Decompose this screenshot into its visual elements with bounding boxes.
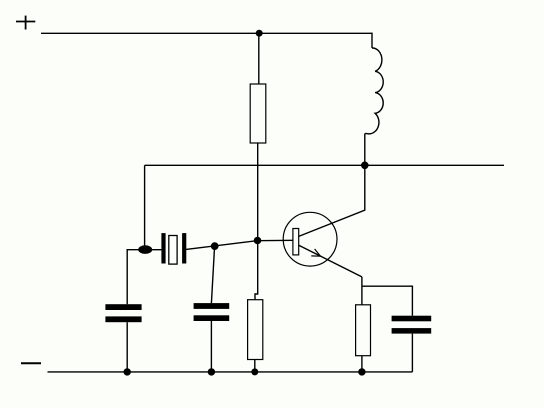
wire mid horizontal (output) [145, 164, 504, 166]
- terminal [21, 362, 41, 364]
inductor L1 [365, 48, 383, 134]
transistor Q1 [283, 212, 337, 266]
wire crystal left lead [150, 249, 161, 251]
node C2 junction [212, 243, 218, 249]
resistor R1 [250, 84, 266, 143]
wire C2 top lead [211, 246, 214, 303]
wire R1 top lead [258, 33, 260, 84]
wire top rail corner down to inductor [371, 33, 373, 48]
resistor R3 [356, 305, 371, 356]
emitter arrow [311, 249, 320, 256]
wire left branch down from mid wire [144, 165, 146, 250]
wire C2 bottom lead [210, 321, 212, 372]
node base divider junction [254, 237, 260, 243]
wire C1 bottom lead [126, 322, 128, 372]
wire C3 bottom lead [411, 334, 413, 372]
node R2 / bottom rail [252, 369, 258, 375]
wire R3 bottom lead [361, 356, 363, 372]
node R3 / bottom rail [359, 369, 365, 375]
node crystal left junction [139, 246, 152, 253]
wire branch to C3 [362, 286, 413, 316]
node top rail / R1 junction [256, 30, 262, 36]
+ terminal [16, 16, 35, 30]
wire stub junction to C1 branch [127, 250, 146, 305]
wire R1 bottom lead to base node [257, 143, 259, 241]
node C1 / bottom rail [124, 369, 130, 375]
capacitor C3 [392, 316, 432, 334]
node collector / mid wire junction [362, 162, 368, 168]
wire inductor bottom lead [364, 134, 366, 166]
wire R2 bottom lead [254, 360, 256, 372]
wire base line crystal to transistor [186, 240, 294, 249]
node C2 / bottom rail [208, 369, 214, 375]
capacitor C2 [194, 303, 230, 321]
wire top supply rail [41, 32, 372, 34]
wire emitter lead [299, 245, 362, 277]
crystal Y1 [161, 233, 186, 264]
resistor R2 [248, 300, 263, 360]
wire collector lead [299, 165, 365, 236]
wire R2 top lead [255, 241, 258, 301]
capacitor C1 [105, 304, 141, 322]
wire emitter down to R3 [361, 277, 363, 305]
wire bottom rail [48, 371, 413, 373]
transistor base bar [293, 229, 299, 255]
